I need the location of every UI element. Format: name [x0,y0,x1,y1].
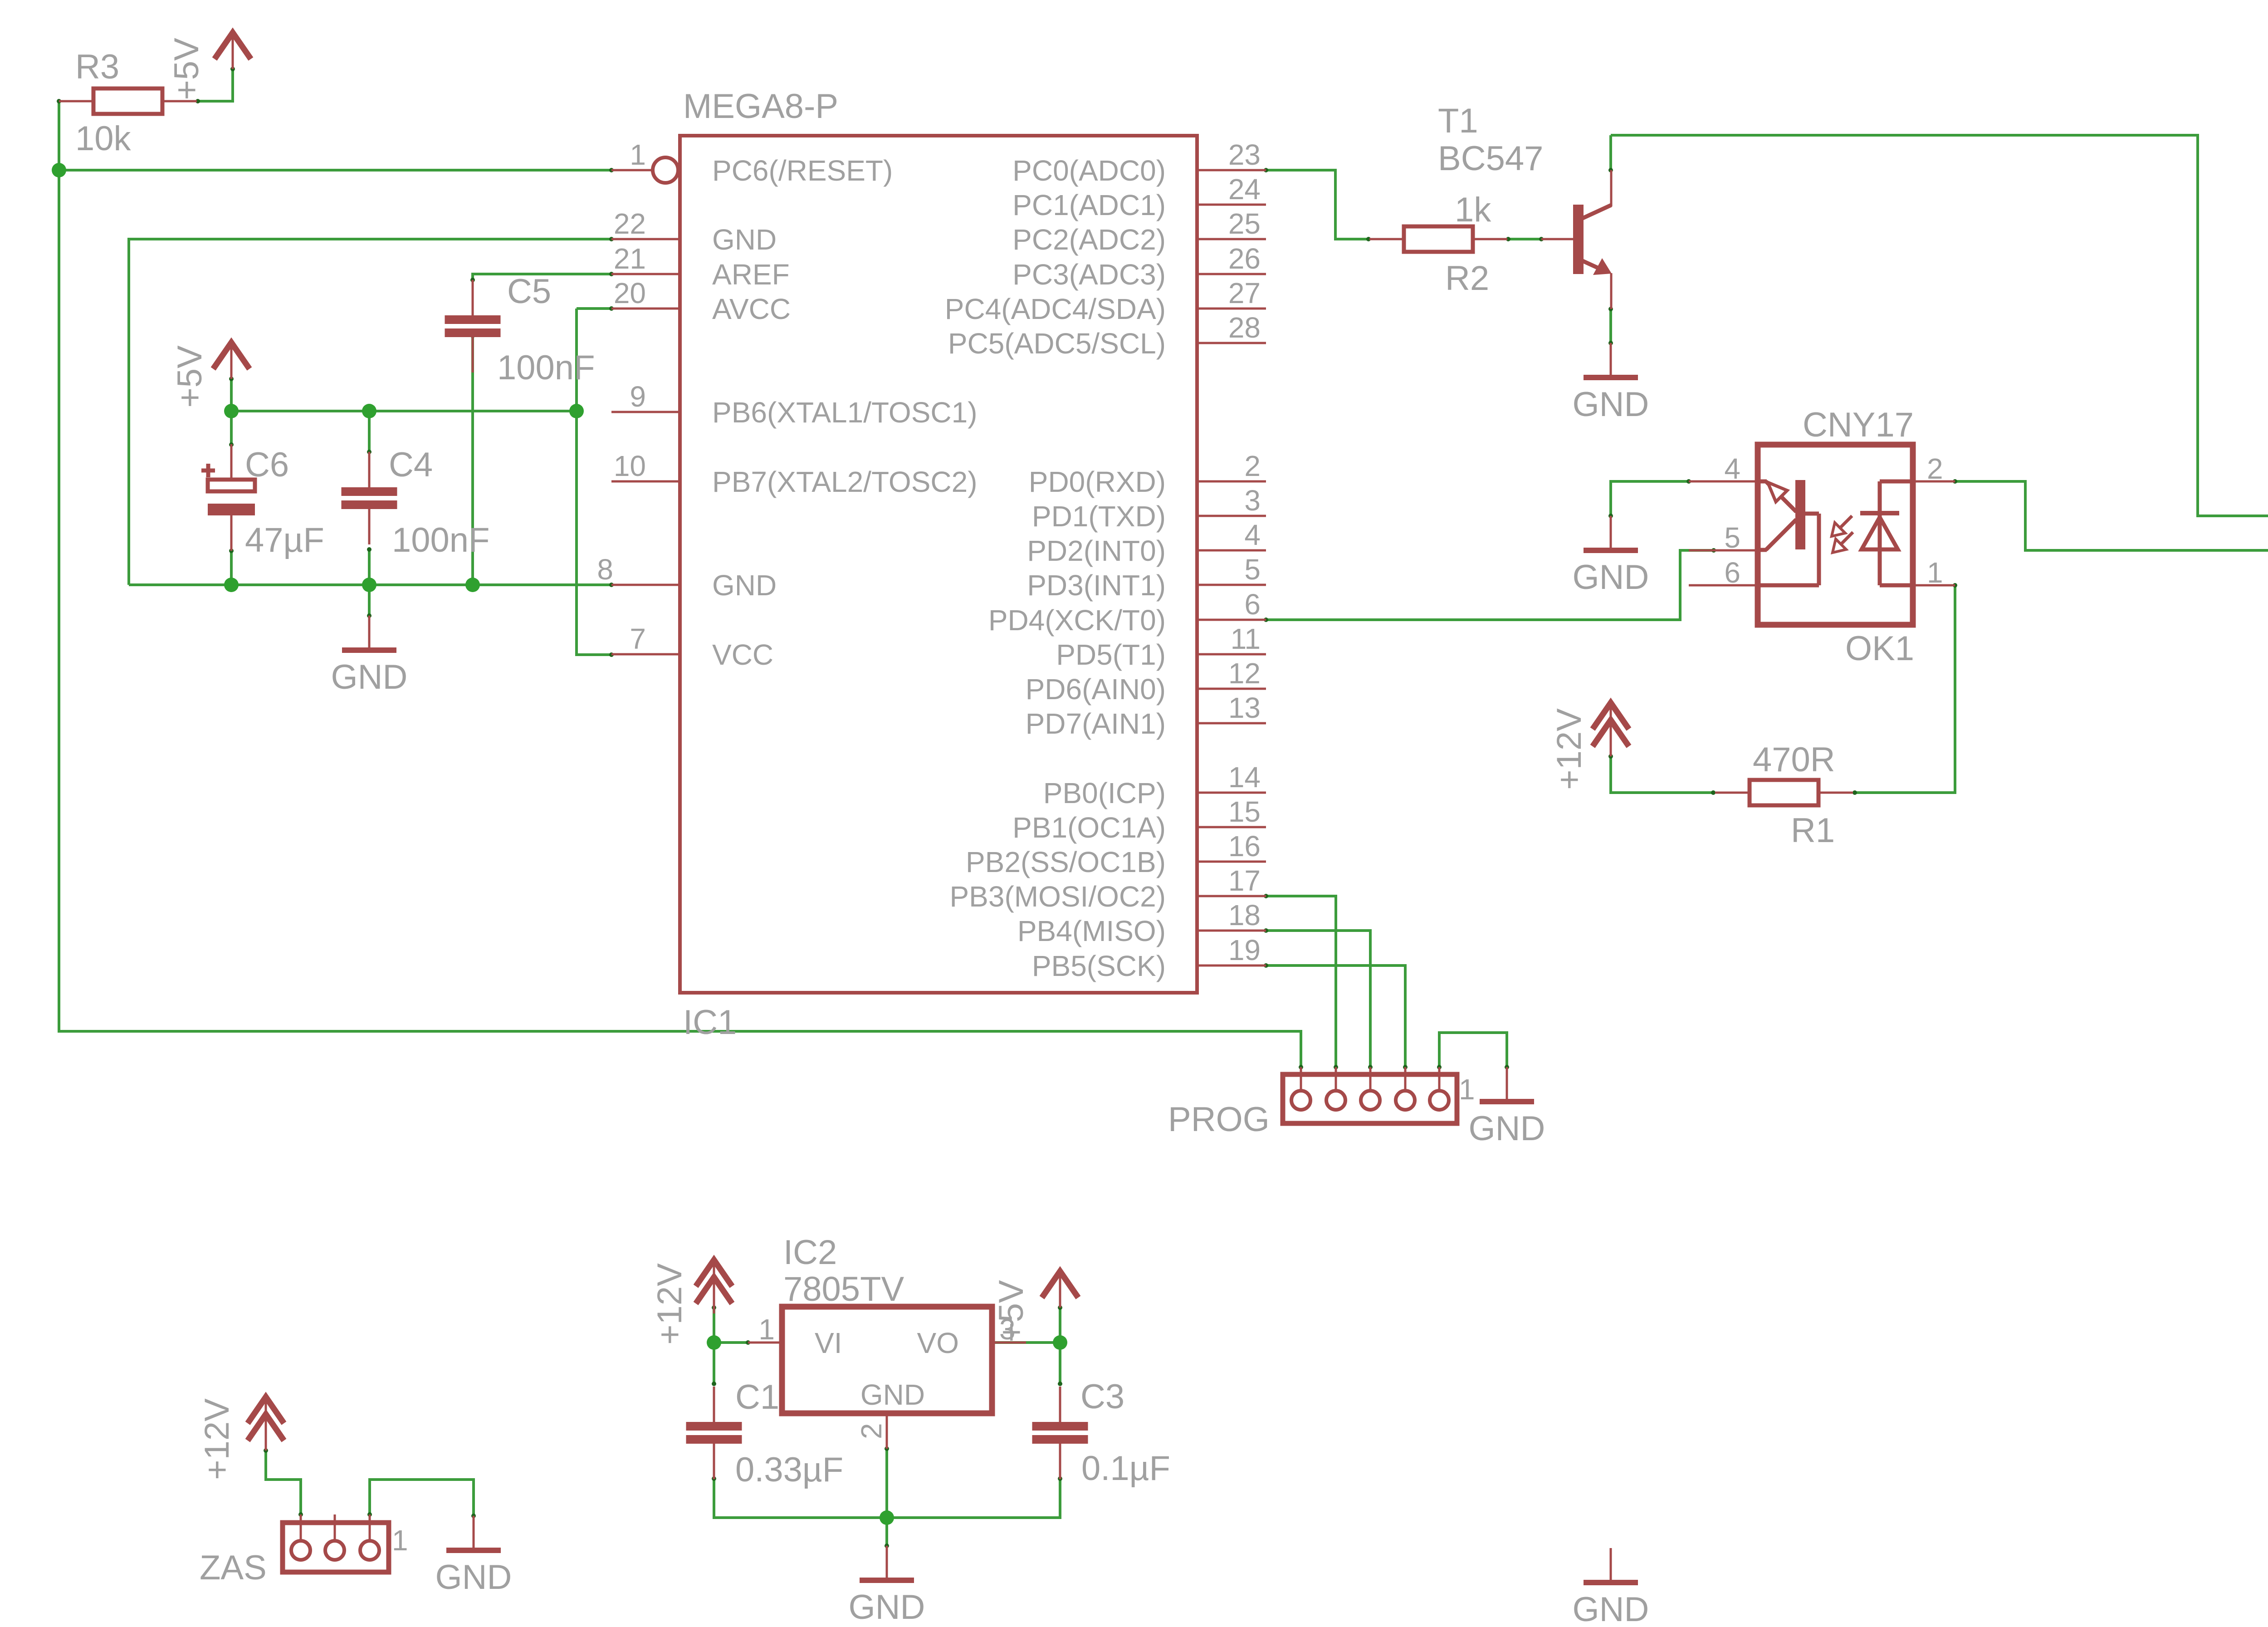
IC1 pin 19 PB5(SCK) [1197,965,1266,967]
svg-text:PROG: PROG [1168,1100,1270,1139]
svg-text:C3: C3 [1080,1377,1124,1416]
+5V supply symbol [1059,1271,1061,1308]
ground [1610,516,1612,550]
wire net MISO IC pin18 to PROG pin 3 [1266,931,1370,1067]
wire node to C3 top [1059,1343,1061,1384]
wire C6 top connection [230,411,233,445]
wire C1 bottom to C3 bottom GND run [714,1480,1060,1518]
capacitor C6 [230,444,233,480]
svg-text:PC3(ADC3): PC3(ADC3) [1012,258,1166,291]
wire net RESET vertical from R3 [58,101,60,170]
wire T1 collector to WE/WY pin 2 [1611,135,2268,516]
svg-text:AVCC: AVCC [712,293,791,325]
junction node +5V rail at C6 [224,404,239,418]
svg-text:PC5(ADC5/SCL): PC5(ADC5/SCL) [948,327,1166,360]
svg-text:19: 19 [1228,934,1261,966]
IC1 pin 16 PB2(SS/OC1B) [1197,861,1266,863]
IC2 pin 3 VO [992,1342,1026,1344]
OK1 pin 4 stub [1689,480,1758,483]
IC1 pin 1 inversion bubble [653,157,678,183]
ZAS pin 2 [334,1514,336,1541]
+12V supply symbol [713,1260,715,1313]
wire net SCK IC pin19 to PROG pin 2 [1266,965,1405,1067]
svg-text:GND: GND [1573,385,1649,424]
svg-text:GND: GND [712,223,777,256]
svg-text:1: 1 [758,1313,775,1346]
OK1 pin 2 stub [1913,480,1955,483]
PROG pin 2 [1404,1067,1407,1091]
svg-text:14: 14 [1228,761,1261,794]
svg-text:+12V: +12V [1550,708,1589,790]
ground [1506,1067,1508,1102]
svg-text:ZAS: ZAS [200,1549,267,1587]
ground [1610,343,1612,377]
svg-text:PC2(ADC2): PC2(ADC2) [1012,223,1166,256]
svg-text:5: 5 [1244,553,1261,586]
svg-text:2: 2 [1244,450,1261,482]
IC1 pin 8 GND [611,584,680,586]
svg-text:PC4(ADC4/SDA): PC4(ADC4/SDA) [945,293,1166,325]
IC IC1 MEGA8-P body [680,136,1197,993]
svg-text:GND: GND [435,1558,512,1597]
OK1 light arrows [1836,516,1852,532]
wire net MOSI IC pin17 to PROG pin 4 [1266,896,1336,1067]
svg-text:2: 2 [1927,452,1943,485]
svg-text:PD3(INT1): PD3(INT1) [1027,569,1166,602]
svg-text:C6: C6 [245,446,289,484]
IC1 pin 2 PD0(RXD) [1197,480,1266,483]
ZAS pin 3 [300,1514,302,1541]
svg-text:11: 11 [1231,622,1261,655]
IC1 pin 18 PB4(MISO) [1197,930,1266,932]
svg-text:1: 1 [630,138,646,171]
wire net +5V arrow drop [230,379,233,411]
junction node RESET at R3 [52,163,66,177]
wire OK1 pin 1 to R1 [1855,585,1955,793]
wire net GND rail to IC pin 8 [129,583,611,586]
resistor R1 [1715,792,1750,794]
svg-text:28: 28 [1228,311,1261,344]
svg-text:PD0(RXD): PD0(RXD) [1029,466,1166,498]
ground [1610,1548,1612,1583]
IC2 pin 2 GND [886,1413,888,1449]
svg-text:PD4(XCK/T0): PD4(XCK/T0) [988,604,1166,637]
wire IC2 VO to +5V node [992,1341,1060,1344]
IC1 pin 4 PD2(INT0) [1197,549,1266,552]
svg-text:VI: VI [815,1327,842,1359]
wire net PD4 to OK1 pin 5 [1266,550,1714,620]
svg-text:VCC: VCC [712,638,773,671]
svg-text:4: 4 [1724,452,1740,485]
wire R1 to +12V [1611,756,1713,793]
svg-text:MEGA8-P: MEGA8-P [683,87,838,126]
IC1 pin 3 PD1(TXD) [1197,515,1266,517]
wire net +5V down to IC pin 7 VCC [577,309,611,655]
svg-text:PD6(AIN0): PD6(AIN0) [1026,673,1166,706]
wire OK1 pin 2 to WE/WY pin 3 [1955,481,2268,550]
svg-text:C5: C5 [507,272,551,311]
svg-text:PB1(OC1A): PB1(OC1A) [1012,811,1166,844]
svg-text:20: 20 [614,277,646,309]
junction node +5V rail at C4 [362,404,376,418]
svg-text:47µF: 47µF [245,521,324,559]
svg-text:7805TV: 7805TV [783,1270,904,1308]
svg-text:GND: GND [860,1378,925,1411]
wire +5V arrow drop IC2 [1059,1308,1061,1343]
wire net RESET long run to PROG pin 5 [59,170,1301,1067]
wire net +5V rail [231,410,577,412]
resistor R3 [59,100,93,103]
+5V supply symbol [230,343,233,379]
IC1 pin 17 PB3(MOSI/OC2) [1197,895,1266,897]
svg-text:25: 25 [1228,207,1261,240]
PROG pin 5 [1300,1067,1302,1091]
wire net AVCC from IC pin 20 [577,307,611,310]
ground [473,1516,475,1550]
ZAS pin 1 [369,1514,371,1541]
svg-text:VO: VO [917,1327,959,1359]
junction node GND at IC2 [880,1510,894,1525]
wire C6 bottom connection [230,551,233,585]
connector SV PROG body [1283,1074,1457,1123]
IC1 pin 9 PB6(XTAL1/TOSC1) [611,411,680,413]
svg-text:BC547: BC547 [1438,139,1543,178]
wire C4 bottom connection [368,549,371,585]
svg-text:100nF: 100nF [392,521,490,559]
IC1 pin 12 PD6(AIN0) [1197,688,1266,690]
IC1 pin 27 PC4(ADC4/SDA) [1197,308,1266,310]
svg-text:PB6(XTAL1/TOSC1): PB6(XTAL1/TOSC1) [712,396,978,429]
svg-text:3: 3 [1244,484,1261,517]
wire +12V arrow to node [713,1308,715,1343]
svg-text:17: 17 [1228,864,1261,897]
svg-text:PD1(TXD): PD1(TXD) [1032,500,1166,533]
wire C5 bottom to GND rail [471,336,474,585]
svg-text:AREF: AREF [712,258,790,291]
+12V supply symbol [265,1397,267,1451]
svg-text:2: 2 [855,1423,888,1439]
OK1 pin 5 stub [1689,549,1758,552]
optocoupler OK1 CNY17 body [1758,445,1913,625]
IC1 pin 23 PC0(ADC0) [1197,169,1266,172]
IC IC2 7805TV body [782,1307,992,1413]
svg-text:R3: R3 [75,48,119,86]
svg-text:1: 1 [392,1524,408,1557]
wire PROG pin 1 to GND [1439,1033,1507,1067]
svg-text:0.1µF: 0.1µF [1081,1449,1170,1488]
svg-text:C1: C1 [735,1378,779,1416]
svg-text:16: 16 [1228,830,1261,863]
svg-text:3: 3 [999,1313,1016,1346]
pin-end junction dots [609,168,614,172]
+5V supply symbol [232,33,234,69]
svg-text:+12V: +12V [198,1398,236,1480]
OK1 pin 1 stub [1913,584,1955,587]
svg-text:21: 21 [614,242,646,275]
svg-text:6: 6 [1724,556,1740,589]
wire GND node to GND symbol [885,1518,888,1546]
PROG pin 3 [1369,1067,1372,1091]
junction node VI at IC2 [707,1335,721,1350]
svg-text:27: 27 [1228,277,1261,309]
IC1 pin 28 PC5(ADC5/SCL) [1197,342,1266,344]
svg-text:12: 12 [1228,657,1261,690]
IC1 pin 7 VCC [611,653,680,656]
svg-text:5: 5 [1724,521,1740,554]
IC1 pin 25 PC2(ADC2) [1197,238,1266,240]
svg-text:PD2(INT0): PD2(INT0) [1027,534,1166,567]
svg-text:15: 15 [1228,795,1261,828]
IC1 pin 14 PB0(ICP) [1197,792,1266,794]
+12V supply symbol [1610,703,1612,756]
wire net +5V at R3 [198,69,233,101]
wire node to C1 top [713,1343,715,1384]
svg-text:8: 8 [597,553,613,586]
svg-text:26: 26 [1228,242,1261,275]
wire to GND symbol under C4 [368,585,371,616]
wire net AREF from IC pin 21 to C5 [473,274,611,280]
svg-text:GND: GND [331,658,408,696]
wire +12V to ZAS pin 3 [266,1451,301,1514]
wire net GND from IC pin 22 [129,239,611,585]
svg-text:GND: GND [1469,1109,1545,1148]
wire IC2 GND pin down [885,1449,888,1518]
connector X ZAS body [283,1523,389,1572]
svg-text:PB7(XTAL2/TOSC2): PB7(XTAL2/TOSC2) [712,466,978,498]
svg-text:PC6(/RESET): PC6(/RESET) [712,154,893,187]
resistor R2 [1369,238,1404,240]
svg-text:IC2: IC2 [783,1233,837,1272]
capacitor C3 [1059,1387,1061,1422]
svg-text:10: 10 [614,450,646,482]
svg-text:18: 18 [1228,899,1261,931]
transistor T1 emitter arrow [1593,258,1612,275]
wire R2 to T1 base [1508,238,1541,240]
svg-text:PB4(MISO): PB4(MISO) [1017,915,1166,947]
wire ZAS pin 1 to GND [370,1480,474,1516]
IC1 pin 5 PD3(INT1) [1197,584,1266,586]
svg-text:13: 13 [1228,691,1261,724]
IC1 pin 13 PD7(AIN1) [1197,722,1266,725]
IC1 pin 24 PC1(ADC1) [1197,204,1266,206]
IC1 pin 21 AREF [611,273,680,275]
wire T1 collector up [1609,135,1612,170]
OK1 pin 6 stub [1689,584,1758,587]
junction node GND rail at C6 [224,578,239,592]
junction node GND rail at C5 [465,578,480,592]
transistor Q T1 BC547 [1541,238,1573,240]
wire C4 top connection [368,411,371,452]
svg-text:R2: R2 [1445,259,1489,298]
svg-text:1: 1 [1459,1073,1475,1106]
wire +12V to IC2 VI [714,1341,748,1344]
svg-text:R1: R1 [1791,811,1835,850]
junction node VO at IC2 [1053,1335,1067,1350]
svg-text:23: 23 [1228,138,1261,171]
wire net PC0 to R2 [1266,170,1369,239]
svg-text:100nF: 100nF [497,348,595,387]
svg-text:22: 22 [614,207,646,240]
svg-text:PB2(SS/OC1B): PB2(SS/OC1B) [966,846,1166,878]
IC1 pin 26 PC3(ADC3) [1197,273,1266,275]
capacitor C4 [368,452,371,487]
svg-text:10k: 10k [75,119,132,158]
svg-text:PD7(AIN1): PD7(AIN1) [1026,707,1166,740]
junction node GND rail at C4 [362,578,376,592]
IC1 pin 1 PC6(/RESET) [611,169,653,172]
IC1 pin 15 PB1(OC1A) [1197,826,1266,828]
svg-text:GND: GND [1573,1590,1649,1627]
svg-text:T1: T1 [1438,102,1478,140]
svg-text:IC1: IC1 [683,1003,737,1042]
OK1 LED [1880,480,1913,484]
junction node +5V rail at VCC drop [569,404,584,418]
svg-text:+12V: +12V [650,1263,689,1345]
capacitor C1 [713,1387,715,1422]
IC1 pin 10 PB7(XTAL2/TOSC2) [611,480,680,483]
capacitor C5 [472,280,474,315]
IC1 pin 22 GND [611,238,680,240]
wire OK1 pin 4 to GND [1611,481,1689,516]
OK1 phototransistor [1758,480,1767,484]
IC1 pin 11 PD5(T1) [1197,653,1266,656]
svg-text:+5V: +5V [171,345,209,408]
svg-text:GND: GND [849,1588,925,1627]
svg-text:PB5(SCK): PB5(SCK) [1032,950,1166,982]
IC1 pin 20 AVCC [611,308,680,310]
svg-text:1k: 1k [1455,191,1491,229]
svg-text:9: 9 [630,380,646,413]
polarity plus sign [201,469,215,473]
svg-text:PC1(ADC1): PC1(ADC1) [1012,189,1166,221]
svg-text:PC0(ADC0): PC0(ADC0) [1012,154,1166,187]
PROG pin 4 [1335,1067,1337,1091]
ground [368,616,371,650]
PROG pin 1 [1438,1067,1441,1091]
svg-text:PB0(ICP): PB0(ICP) [1043,777,1166,809]
svg-text:GND: GND [712,569,777,602]
svg-text:0.33µF: 0.33µF [735,1451,843,1489]
svg-text:470R: 470R [1753,740,1835,779]
wire T1 emitter to GND [1609,309,1612,343]
ground [886,1546,888,1580]
svg-text:6: 6 [1244,588,1261,621]
IC1 pin 6 PD4(XCK/T0) [1197,619,1266,621]
svg-text:4: 4 [1244,519,1261,551]
svg-text:1: 1 [1927,556,1943,589]
svg-text:7: 7 [630,622,646,655]
svg-text:C4: C4 [389,446,433,484]
svg-text:PB3(MOSI/OC2): PB3(MOSI/OC2) [949,880,1166,913]
svg-text:+5V: +5V [167,38,206,100]
IC2 pin 1 VI [748,1342,782,1344]
svg-text:CNY17: CNY17 [1803,406,1914,444]
svg-text:OK1: OK1 [1845,629,1914,668]
wire net RESET to IC pin 1 [59,169,611,172]
svg-text:24: 24 [1228,173,1261,206]
svg-text:GND: GND [1573,558,1649,597]
svg-text:PD5(T1): PD5(T1) [1056,638,1166,671]
